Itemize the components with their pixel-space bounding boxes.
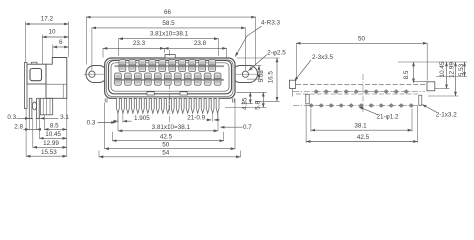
svg-text:38.1: 38.1 (354, 123, 367, 130)
svg-text:23.3: 23.3 (133, 40, 146, 47)
svg-text:5.53: 5.53 (458, 63, 465, 76)
svg-text:8.5: 8.5 (403, 70, 410, 79)
svg-text:42.5: 42.5 (357, 134, 370, 141)
svg-text:4.35: 4.35 (241, 97, 248, 110)
svg-text:0.3: 0.3 (87, 119, 96, 126)
svg-text:21-0.9: 21-0.9 (187, 114, 205, 121)
svg-text:42.5: 42.5 (160, 134, 173, 141)
svg-text:54: 54 (162, 150, 170, 157)
svg-text:3.81x10=38.1: 3.81x10=38.1 (152, 124, 191, 131)
svg-text:0.3: 0.3 (7, 114, 16, 121)
svg-text:12.99: 12.99 (448, 62, 455, 78)
svg-text:5.08: 5.08 (258, 70, 265, 83)
svg-text:10.45: 10.45 (439, 61, 446, 77)
svg-text:0.7: 0.7 (243, 124, 252, 131)
svg-text:3.1: 3.1 (60, 114, 69, 121)
svg-text:3.81x10=38.1: 3.81x10=38.1 (150, 31, 189, 38)
svg-text:2.8: 2.8 (14, 124, 23, 131)
svg-text:66: 66 (164, 9, 172, 16)
svg-text:23.8: 23.8 (194, 40, 207, 47)
svg-text:4-R3.3: 4-R3.3 (261, 19, 280, 26)
svg-text:8.5: 8.5 (50, 123, 59, 130)
svg-text:21-φ1.2: 21-φ1.2 (377, 113, 399, 120)
svg-text:50: 50 (162, 142, 170, 149)
svg-text:16.5: 16.5 (267, 71, 274, 84)
svg-text:58.5: 58.5 (162, 20, 175, 27)
svg-text:50: 50 (358, 36, 366, 43)
svg-text:2-φ2.5: 2-φ2.5 (267, 49, 286, 56)
svg-text:10.45: 10.45 (45, 131, 61, 138)
svg-text:5.8: 5.8 (254, 101, 261, 110)
svg-text:10: 10 (48, 29, 56, 36)
svg-text:2-1x3.2: 2-1x3.2 (436, 112, 458, 119)
svg-text:6: 6 (59, 39, 63, 46)
svg-text:17.2: 17.2 (41, 16, 54, 23)
svg-text:2-3x3.5: 2-3x3.5 (312, 54, 334, 61)
svg-text:15.53: 15.53 (41, 149, 57, 156)
svg-text:1.905: 1.905 (134, 115, 150, 122)
svg-text:12.99: 12.99 (43, 140, 59, 147)
